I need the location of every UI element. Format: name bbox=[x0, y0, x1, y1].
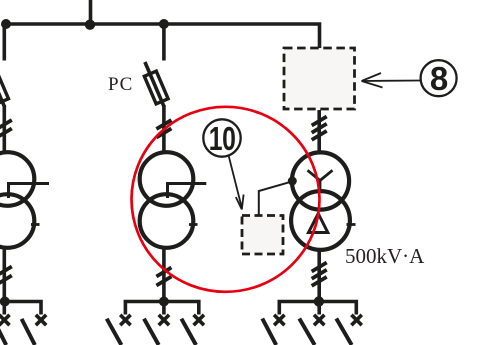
label 500kV·A bbox=[345, 244, 424, 269]
transformer T2 secondary circle bbox=[140, 194, 194, 248]
fuse-switch (PC) left branch bbox=[0, 62, 8, 107]
node: bus junction middle branch bbox=[159, 19, 169, 29]
node: right branch LV junction bbox=[314, 296, 324, 306]
wire: incoming feeder from top bbox=[89, 0, 93, 26]
node: bus junction center-left bbox=[85, 20, 95, 30]
switch X left branch stub 1 bbox=[0, 315, 9, 325]
conductor marks: left branch lower double slash bbox=[0, 267, 12, 285]
wire: left branch below fuse bbox=[3, 105, 7, 154]
delta symbol inside T3 secondary bbox=[309, 214, 328, 233]
dashed box: device 10 (metering transformer) bbox=[242, 216, 283, 255]
node: bus junction left bbox=[1, 19, 11, 29]
wire: right branch below box 8 bbox=[317, 110, 321, 154]
wire: right branch below transformer bbox=[317, 249, 321, 302]
wire: main bus bbox=[2, 24, 320, 49]
wire: middle branch below fuse bbox=[162, 105, 166, 154]
switch X right stub 2 bbox=[314, 315, 324, 325]
conductor marks: left branch upper double slash bbox=[0, 120, 12, 138]
wire: right LV stub center bbox=[317, 302, 321, 315]
transformer T1 primary circle bbox=[0, 152, 34, 206]
wire: leader from tap dot to box 10 bbox=[259, 182, 291, 216]
wire: middle LV stub center bbox=[162, 302, 166, 315]
feeder line right c bbox=[336, 319, 351, 345]
transformer T2 primary circle bbox=[140, 152, 194, 206]
feeder line right a bbox=[262, 319, 276, 345]
label digit 8 bbox=[424, 62, 454, 95]
conductor marks: middle branch lower double slash bbox=[156, 268, 171, 286]
node: tap dot on T3 primary bbox=[288, 177, 297, 186]
feeder line right b bbox=[299, 319, 314, 345]
switch X left branch stub 2 bbox=[36, 315, 46, 325]
node: left branch LV junction bbox=[0, 297, 10, 307]
callout circle 10 bbox=[203, 119, 240, 156]
switch X right stub 1 bbox=[274, 315, 284, 325]
switch X middle stub 3 bbox=[194, 315, 204, 325]
transformer T3 primary circle (wye) bbox=[292, 152, 349, 209]
feeder line left branch a bbox=[0, 319, 6, 345]
tick on T3 secondary circle bbox=[347, 223, 356, 226]
label digit 10 bbox=[209, 122, 232, 155]
switch X middle stub 2 bbox=[159, 315, 169, 325]
conductor marks: middle branch upper double slash bbox=[156, 120, 171, 138]
leader arrow from 10 to dashed box bbox=[229, 156, 244, 210]
wire: left LV stub center bbox=[3, 302, 7, 315]
feeder line middle b bbox=[144, 319, 159, 345]
wire: T1 secondary tap bbox=[9, 184, 50, 199]
red highlight circle bbox=[132, 107, 320, 292]
leader arrow from 8 to dashed box bbox=[362, 73, 421, 88]
switch X middle stub 1 bbox=[120, 315, 130, 325]
wire: middle branch drop from bus bbox=[162, 24, 166, 61]
feeder line middle a bbox=[107, 319, 122, 345]
switch X right stub 3 bbox=[351, 315, 361, 325]
wire: T2 secondary tap bbox=[168, 184, 207, 199]
dashed box: device 8 (circuit breaker unit) bbox=[284, 48, 355, 109]
transformer T3 secondary circle (delta) bbox=[291, 191, 350, 250]
label PC bbox=[108, 74, 133, 96]
wire: right LV arms bbox=[279, 302, 356, 315]
conductor marks: right branch upper triple slash bbox=[312, 117, 327, 140]
wire: middle LV arms bbox=[125, 302, 198, 315]
tick on T1 secondary circle bbox=[31, 223, 40, 226]
wire: left branch drop from bus bbox=[3, 24, 7, 61]
node: middle branch LV junction bbox=[159, 297, 169, 307]
fuse-switch PC middle branch bbox=[144, 62, 168, 107]
feeder line middle c bbox=[181, 319, 196, 345]
conductor marks: right branch lower triple slash bbox=[312, 263, 327, 286]
wire: middle branch below transformer bbox=[162, 246, 166, 302]
tick on T2 secondary circle bbox=[189, 223, 198, 226]
wire: left branch below transformer bbox=[3, 246, 7, 302]
transformer T1 secondary circle bbox=[0, 194, 34, 248]
callout circle 8 bbox=[421, 60, 457, 96]
wye symbol inside T3 primary bbox=[308, 170, 333, 192]
wire: left LV arm bbox=[5, 302, 41, 315]
feeder line left branch b bbox=[22, 319, 35, 345]
